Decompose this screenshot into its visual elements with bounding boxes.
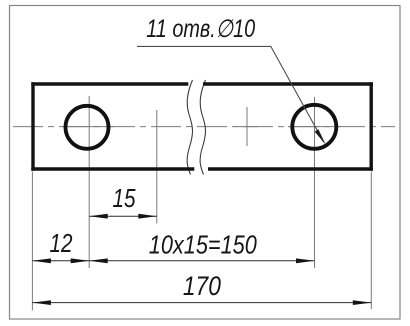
svg-text:11 отв.∅10: 11 отв.∅10 bbox=[146, 15, 255, 43]
svg-text:10х15=150: 10х15=150 bbox=[149, 230, 257, 260]
svg-text:170: 170 bbox=[183, 271, 221, 301]
svg-text:15: 15 bbox=[113, 183, 136, 213]
svg-text:12: 12 bbox=[50, 228, 73, 258]
